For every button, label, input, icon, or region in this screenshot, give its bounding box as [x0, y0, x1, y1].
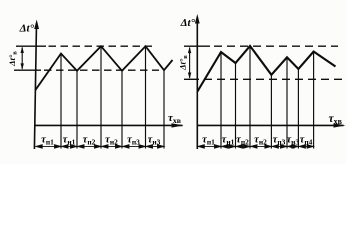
left top dashed level tick: [16, 45, 46, 47]
right extension line x=250: [249, 46, 251, 149]
left x-axis: [35, 124, 183, 126]
left lower dashed line: [44, 69, 159, 71]
right lower dashed line: [204, 78, 343, 80]
interval arrow L5: [123, 145, 146, 148]
right extension line x=313.6: [313, 52, 315, 149]
right lower dashed level tick: [184, 78, 199, 80]
interval arrow R1: [198, 145, 221, 148]
interval arrow L4: [102, 145, 122, 148]
left lower dashed level tick: [14, 69, 41, 71]
left extension line x=77: [76, 71, 78, 149]
interval arrow R3: [236, 145, 250, 148]
interval arrow L3: [78, 145, 101, 148]
interval arrow R6: [288, 145, 299, 148]
right x-axis: [197, 124, 343, 126]
left x-axis arrowhead: [172, 123, 184, 127]
interval arrow L1: [36, 145, 61, 148]
left extension line x=101: [100, 46, 102, 148]
right x-axis arrowhead: [334, 123, 346, 127]
interval arrow L6: [146, 145, 164, 148]
left top dashed line: [49, 45, 156, 47]
svg-text:Δt°: Δt°: [180, 17, 196, 29]
right dimension line: [189, 48, 191, 78]
right temperature waveform: [197, 46, 335, 92]
left extension line x=61: [60, 54, 62, 149]
svg-text:Δt°: Δt°: [19, 23, 35, 35]
interval arrow R4: [251, 145, 272, 148]
right top dashed level tick: [184, 45, 210, 47]
right y-axis arrowhead: [195, 14, 200, 24]
right extension line x=221: [220, 52, 222, 149]
right extension line x=287: [286, 57, 288, 148]
left extension line x=145.5: [145, 46, 147, 148]
left y-axis arrowhead: [34, 20, 39, 30]
left y-axis: [34, 23, 36, 149]
right extension line x=235.5: [235, 63, 237, 149]
interval arrow R2: [222, 145, 236, 148]
left extension line x=164: [163, 70, 165, 148]
left extension line x=122: [121, 71, 123, 149]
right y-axis: [196, 18, 198, 150]
right extension line x=271.4: [270, 75, 272, 149]
right extension line x=298.4: [297, 69, 299, 149]
interval arrow R7: [299, 145, 313, 148]
interval arrow R5: [272, 145, 287, 148]
interval arrow L2: [62, 145, 77, 148]
left dimension line: [21, 48, 23, 69]
right top dashed line: [214, 45, 338, 47]
left temperature waveform: [35, 46, 172, 90]
